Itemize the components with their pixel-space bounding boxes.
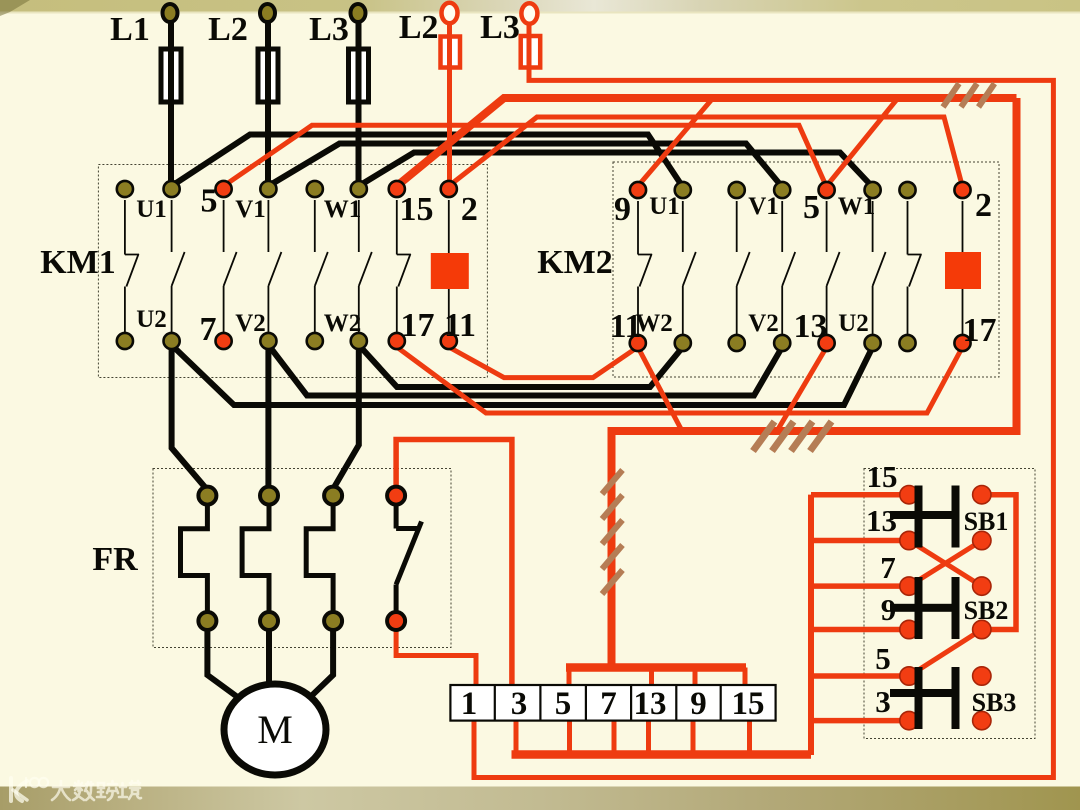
FR heater element 1 [181, 503, 208, 613]
strip top stub cell 13 [649, 668, 654, 686]
wire KM1-5 to KM2-5 [224, 125, 827, 187]
svg-text:L2: L2 [399, 9, 439, 46]
FR heater element 2 [242, 503, 269, 613]
svg-text:7: 7 [200, 311, 217, 348]
wire KM1-V2 to KM2-V2 (bottom) [268, 345, 782, 396]
svg-text:U2: U2 [838, 310, 869, 337]
svg-text:V1: V1 [235, 196, 266, 223]
KM2 contact pole 6 [873, 201, 886, 334]
svg-text:W2: W2 [635, 310, 673, 337]
KM1 terminal U2 [164, 333, 180, 349]
svg-text:L2: L2 [208, 11, 248, 48]
KM1 contact pole 5 [315, 200, 328, 333]
SB terminal 7L [900, 577, 918, 595]
wire FR heater 3 to motor [303, 628, 333, 704]
KM1 terminal V1 [260, 181, 276, 197]
wire L3 control supply to right edge and bottom return [474, 21, 1053, 778]
KM2 terminal 13 [819, 335, 835, 351]
strip bottom stub cell 15 [747, 721, 752, 755]
FR terminal bottom 2 [260, 612, 278, 630]
wire L1 supply column [168, 20, 174, 185]
FR contact terminal bottom [387, 612, 405, 630]
SB terminal 5R [973, 667, 991, 685]
SB terminal 13L [900, 531, 918, 549]
wire tap KM2-11 to bundle [638, 347, 681, 429]
KM2 contact pole 4 [782, 201, 795, 334]
svg-text:5: 5 [201, 183, 218, 220]
KM2 terminal 5 [819, 182, 835, 198]
fuse FU1 [161, 49, 181, 102]
svg-text:V2: V2 [748, 310, 779, 337]
pushbutton SB1 bridge bars [890, 486, 960, 548]
pushbutton station SB dashed box [864, 469, 1035, 739]
KM2 terminal U2 [865, 335, 881, 351]
KM1 contact pole 2 [172, 200, 185, 333]
contactor KM1 dashed box [98, 165, 487, 378]
svg-text:15: 15 [732, 686, 765, 722]
strip bottom bus (thick) [512, 750, 812, 759]
terminal L2 control [442, 3, 458, 24]
motor M [224, 684, 326, 775]
wire KM1-17 to KM2-17 [397, 347, 963, 413]
svg-text:2: 2 [975, 187, 992, 224]
SB terminal 15R [973, 486, 991, 504]
wire bus to SB row 13 [811, 538, 909, 544]
KM1 terminal U1 [164, 181, 180, 197]
svg-text:5: 5 [555, 686, 572, 722]
svg-text:SB2: SB2 [964, 596, 1009, 625]
SB terminal 13R [973, 531, 991, 549]
svg-text:1: 1 [461, 686, 478, 722]
KM2 terminal 2 [954, 182, 970, 198]
strip top stub cell 15 [743, 668, 748, 686]
svg-text:U1: U1 [136, 196, 167, 223]
strip bottom stub cell 7 [612, 721, 617, 755]
KM2 terminal 9 [630, 182, 646, 198]
wire FR contact feed from terminal 3 column [396, 440, 512, 686]
svg-text:9: 9 [881, 592, 897, 627]
FR NC contact [396, 503, 421, 613]
KM1 terminal 11 [441, 333, 457, 349]
strip bottom stub cell 3 [514, 721, 519, 755]
terminal strip [450, 685, 775, 721]
SB terminal 9L [900, 620, 918, 638]
svg-text:17: 17 [963, 312, 997, 349]
wire KM1-V1 to KM2-V1 [268, 144, 782, 188]
SB terminal 3R [973, 711, 991, 729]
fuse FU3 [349, 49, 369, 102]
KM2 terminal top 7 [899, 182, 915, 198]
wire KM1-W2 to KM2-W2 (bottom) [359, 345, 683, 387]
svg-text:17: 17 [401, 307, 435, 344]
KM1 contact pole 7 (NC aux) [397, 200, 411, 333]
KM1 contact pole 6 [359, 200, 372, 333]
cable hatch marks vertical bundle [602, 470, 623, 594]
svg-text:5: 5 [803, 189, 820, 226]
terminal L1 [163, 4, 178, 22]
svg-text:KM1: KM1 [40, 244, 116, 281]
terminal L3 [351, 4, 366, 22]
FR heater element 3 [306, 503, 333, 613]
top khaki band [0, 0, 1080, 12]
SB terminal 3L [900, 711, 918, 729]
SB terminal 9R [973, 620, 991, 638]
svg-text:L3: L3 [480, 9, 520, 46]
svg-text:KM2: KM2 [537, 244, 613, 281]
wire KM1-U2 to KM2-U2 (bottom) [172, 345, 873, 405]
FR terminal bottom 3 [324, 612, 342, 630]
KM2 terminal bottom 7 [899, 335, 915, 351]
pushbutton SB3 bridge bars [890, 667, 960, 729]
wire KM1-W2 down to FR heater 3 [333, 345, 359, 489]
strip top stub cell 9 [693, 668, 698, 686]
KM1 terminal 5 [216, 181, 232, 197]
KM2 terminal 17 [954, 335, 970, 351]
wire bus to SB row 7 [811, 583, 909, 589]
KM1 terminal 7 [216, 333, 232, 349]
terminal L2 [260, 4, 275, 22]
FR terminal bottom 1 [198, 612, 216, 630]
svg-text:13: 13 [634, 686, 667, 722]
svg-text:13: 13 [794, 308, 828, 345]
KM2 terminal W2 [675, 335, 691, 351]
bottom khaki band [0, 787, 1080, 810]
wire SB 9 to 5 diagonal [909, 630, 982, 677]
wire FR heater 2 to motor [266, 628, 272, 688]
wire bundle right vertical and bottom (thick) [612, 98, 1017, 667]
strip top bus (thick) [566, 663, 746, 672]
KM2 contact pole 7 (NC aux) [908, 201, 922, 334]
svg-text:3: 3 [875, 684, 891, 719]
svg-text:FR: FR [92, 541, 138, 578]
wire bus to SB row 5 [811, 673, 909, 679]
svg-text:U1: U1 [649, 193, 680, 220]
thermal relay FR dashed box [153, 469, 451, 648]
KM1 coil leads [448, 200, 450, 333]
svg-text:7: 7 [880, 550, 896, 585]
KM1 terminal 2 [441, 181, 457, 197]
svg-text:V1: V1 [748, 193, 779, 220]
strip bottom stub cell 9 [691, 721, 696, 755]
FR terminal top 1 [198, 487, 216, 505]
strip bottom stub cell 5 [567, 721, 572, 755]
svg-text:SB3: SB3 [972, 688, 1017, 717]
wire SB holding loop 15-9 [982, 495, 1016, 630]
wire KM1-U1 to KM2-U1 [172, 135, 683, 188]
wire L2 supply column [265, 20, 271, 185]
svg-text:9: 9 [690, 686, 707, 722]
svg-text:SB1: SB1 [964, 507, 1009, 536]
svg-text:W1: W1 [838, 193, 876, 220]
FR terminal top 3 [324, 487, 342, 505]
cable hatch marks top bundle [943, 84, 995, 108]
pushbutton bus vertical [808, 495, 814, 755]
KM2 contact pole 1 (NC aux) [638, 201, 652, 334]
wire FR heater 1 to motor [207, 628, 247, 704]
KM2 terminal U1 [675, 182, 691, 198]
KM1 contact pole 4 [268, 200, 281, 333]
KM2 coil leads [962, 201, 964, 334]
KM2 contact pole 2 [683, 201, 696, 334]
KM1 terminal V2 [260, 333, 276, 349]
wire KM1-2 to KM2-2 [449, 117, 963, 187]
SB terminal 5L [900, 667, 918, 685]
svg-text:11: 11 [444, 307, 476, 344]
strip top stub cell 5 [567, 668, 572, 686]
wire bus to SB row 15 [811, 492, 909, 498]
cable hatch marks middle bundle [753, 422, 832, 452]
wire SB1 crossover 13-7 a [909, 541, 982, 587]
KM2 terminal 11 [630, 335, 646, 351]
wire bundle KM1-15 to top right (thick) [397, 98, 1017, 186]
FR terminal top 2 [260, 487, 278, 505]
wire KM1-11 to KM2-11 [449, 347, 638, 378]
svg-text:L3: L3 [309, 11, 349, 48]
KM1 contact pole 3 [224, 200, 237, 333]
svg-text:V2: V2 [235, 310, 266, 337]
fuse FU2 [258, 49, 278, 102]
svg-text:15: 15 [867, 459, 898, 494]
KM1 terminal W1 [351, 181, 367, 197]
KM1 terminal 15 [389, 181, 405, 197]
wire FR contact to strip terminal 1 [396, 628, 476, 685]
fuse FU4 (control L2) [441, 37, 461, 68]
KM1 contact pole 1 (NC aux) [125, 200, 139, 333]
svg-text:M: M [257, 707, 293, 752]
KM2 contact pole 5 [827, 201, 840, 334]
svg-text:13: 13 [866, 503, 897, 538]
FR contact terminal top [387, 487, 405, 505]
wire L3 supply column [356, 20, 362, 185]
KM1 terminal 17 [389, 333, 405, 349]
KM2 contact pole 3 [737, 201, 750, 334]
SB terminal 7R [973, 577, 991, 595]
contactor KM2 dashed box [613, 162, 999, 377]
wire bus to SB row 3 [811, 718, 909, 724]
wire SB1 crossover 13-7 b [909, 541, 982, 587]
KM1 terminal W2 [351, 333, 367, 349]
wire tap KM2-9 to bundle [638, 98, 713, 186]
KM1 terminal bottom 5 [307, 333, 323, 349]
fuse FU5 (control L3) [521, 36, 541, 68]
svg-text:W1: W1 [324, 196, 362, 223]
KM2 terminal top 3 [729, 182, 745, 198]
pushbutton SB2 bridge bars [890, 577, 960, 639]
svg-text:L1: L1 [110, 11, 150, 48]
coil KM1 [431, 253, 469, 289]
KM2 terminal bottom 3 [729, 335, 745, 351]
KM2 terminal W1 [865, 182, 881, 198]
strip bottom stub cell 13 [646, 721, 651, 755]
KM2 terminal V1 [774, 182, 790, 198]
wire L2 control supply column [447, 20, 452, 185]
svg-text:15: 15 [400, 191, 434, 228]
SB terminal 15L [900, 486, 918, 504]
KM1 terminal top 1 [117, 181, 133, 197]
svg-text:W2: W2 [324, 310, 362, 337]
svg-text:U2: U2 [136, 306, 167, 333]
terminal L3 control [521, 3, 537, 24]
svg-text:9: 9 [614, 191, 631, 228]
svg-text:7: 7 [600, 686, 617, 722]
KM1 terminal top 5 [307, 181, 323, 197]
wire KM1-V2 down to FR heater 2 [265, 345, 271, 490]
wire tap KM2-5 to bundle [827, 98, 898, 186]
svg-text:5: 5 [875, 641, 891, 676]
wire bus to SB row 9 [811, 627, 909, 633]
KM1 terminal bottom 1 [117, 333, 133, 349]
coil KM2 [945, 252, 981, 289]
wire KM1-U2 down to FR heater 1 [172, 345, 208, 490]
svg-text:2: 2 [461, 191, 478, 228]
wire KM1-W1 to KM2-W1 [359, 153, 873, 188]
svg-text:3: 3 [511, 686, 528, 722]
watermark logo and text [11, 778, 48, 801]
KM2 terminal V2 [774, 335, 790, 351]
wire tap KM2-13 to bundle [777, 347, 827, 431]
